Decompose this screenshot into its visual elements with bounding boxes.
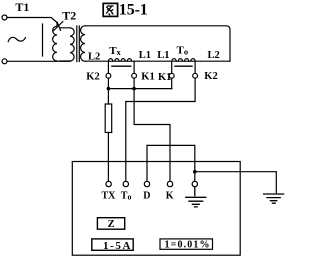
wire (bus to resistor): [107, 89, 109, 104]
svg-text:K1: K1: [141, 72, 154, 83]
wire (Tx K1 route to terminal K): [134, 89, 170, 182]
transformer primary winding: [60, 28, 74, 61]
svg-text:K2: K2: [204, 71, 217, 82]
svg-text:To: To: [177, 45, 189, 57]
terminal (source top): [2, 15, 7, 20]
svg-text:15-1: 15-1: [119, 1, 148, 18]
svg-text:K2: K2: [86, 72, 99, 83]
wire (To K1 leg): [171, 61, 173, 73]
ground (internal): [186, 187, 206, 207]
svg-text:L1: L1: [139, 50, 151, 61]
wire (Tx K2 to bus): [107, 78, 109, 89]
box 1=0.01%: [160, 239, 213, 249]
wire (earth wire to external ground): [195, 172, 276, 193]
terminal (source bottom): [2, 59, 7, 64]
svg-text:T1: T1: [15, 0, 29, 14]
svg-text:To: To: [121, 191, 132, 202]
wire (source bottom rail): [7, 60, 70, 62]
transformer core: [77, 26, 80, 62]
CT Tx secondary bar: [112, 65, 131, 67]
variac core bar: [42, 24, 44, 56]
terminal TX: [106, 181, 111, 186]
wire (Tx K1 leg): [133, 61, 135, 73]
terminal To: [123, 181, 128, 186]
variac tap arrow: [53, 22, 70, 31]
box Z: [97, 218, 124, 230]
terminal D: [144, 181, 149, 186]
svg-text:TX: TX: [102, 191, 117, 202]
wire (main primary loop): [85, 60, 230, 62]
CT Tx primary bumps: [109, 59, 132, 62]
CT To primary bumps: [172, 59, 195, 62]
svg-text:L1: L1: [157, 50, 169, 61]
title 图15-1: [103, 3, 117, 16]
terminal earth: [192, 181, 197, 186]
svg-text:1=0.01%: 1=0.01%: [165, 240, 210, 251]
AC source ~: [8, 37, 25, 41]
wire (source top to variac): [7, 18, 57, 23]
svg-text:Tx: Tx: [109, 45, 121, 57]
wire (bridge D to earth terminal): [147, 145, 195, 181]
svg-text:D: D: [143, 191, 150, 202]
transformer secondary winding: [81, 26, 85, 61]
wire (To K1 to bus): [171, 78, 173, 89]
wire (bus K1-K2): [108, 88, 171, 90]
svg-text:L2: L2: [88, 52, 100, 63]
wire (To K2 leg): [194, 61, 196, 73]
junction dot: [107, 87, 111, 91]
svg-text:K1: K1: [158, 72, 171, 83]
svg-text:L2: L2: [208, 50, 220, 61]
svg-text:K: K: [166, 191, 174, 202]
wire (resistor to terminal TX): [107, 133, 109, 182]
ground (external): [264, 194, 284, 203]
wire (Tx K2 leg): [107, 61, 109, 73]
wire (top rail): [85, 26, 230, 61]
wire (To K2 route to terminal To): [126, 78, 195, 181]
junction dot: [132, 87, 136, 91]
terminal K: [167, 181, 172, 186]
terminal K2 of Tx: [106, 73, 111, 78]
terminal K2 of To: [193, 73, 198, 78]
box (calibrator): [72, 162, 240, 256]
box 1-5A: [92, 239, 133, 250]
svg-text:Z: Z: [108, 219, 115, 230]
junction dot (earth tap): [193, 170, 197, 174]
wire (Tx K1 to bus): [133, 78, 135, 89]
svg-text:1-5A: 1-5A: [103, 240, 131, 252]
terminal K1 of To: [169, 73, 174, 78]
terminal K1 of Tx: [132, 73, 137, 78]
variac winding T2: [53, 23, 57, 62]
resistor R: [105, 104, 112, 133]
svg-text:T2: T2: [62, 9, 76, 23]
CT To secondary bar: [175, 65, 192, 67]
